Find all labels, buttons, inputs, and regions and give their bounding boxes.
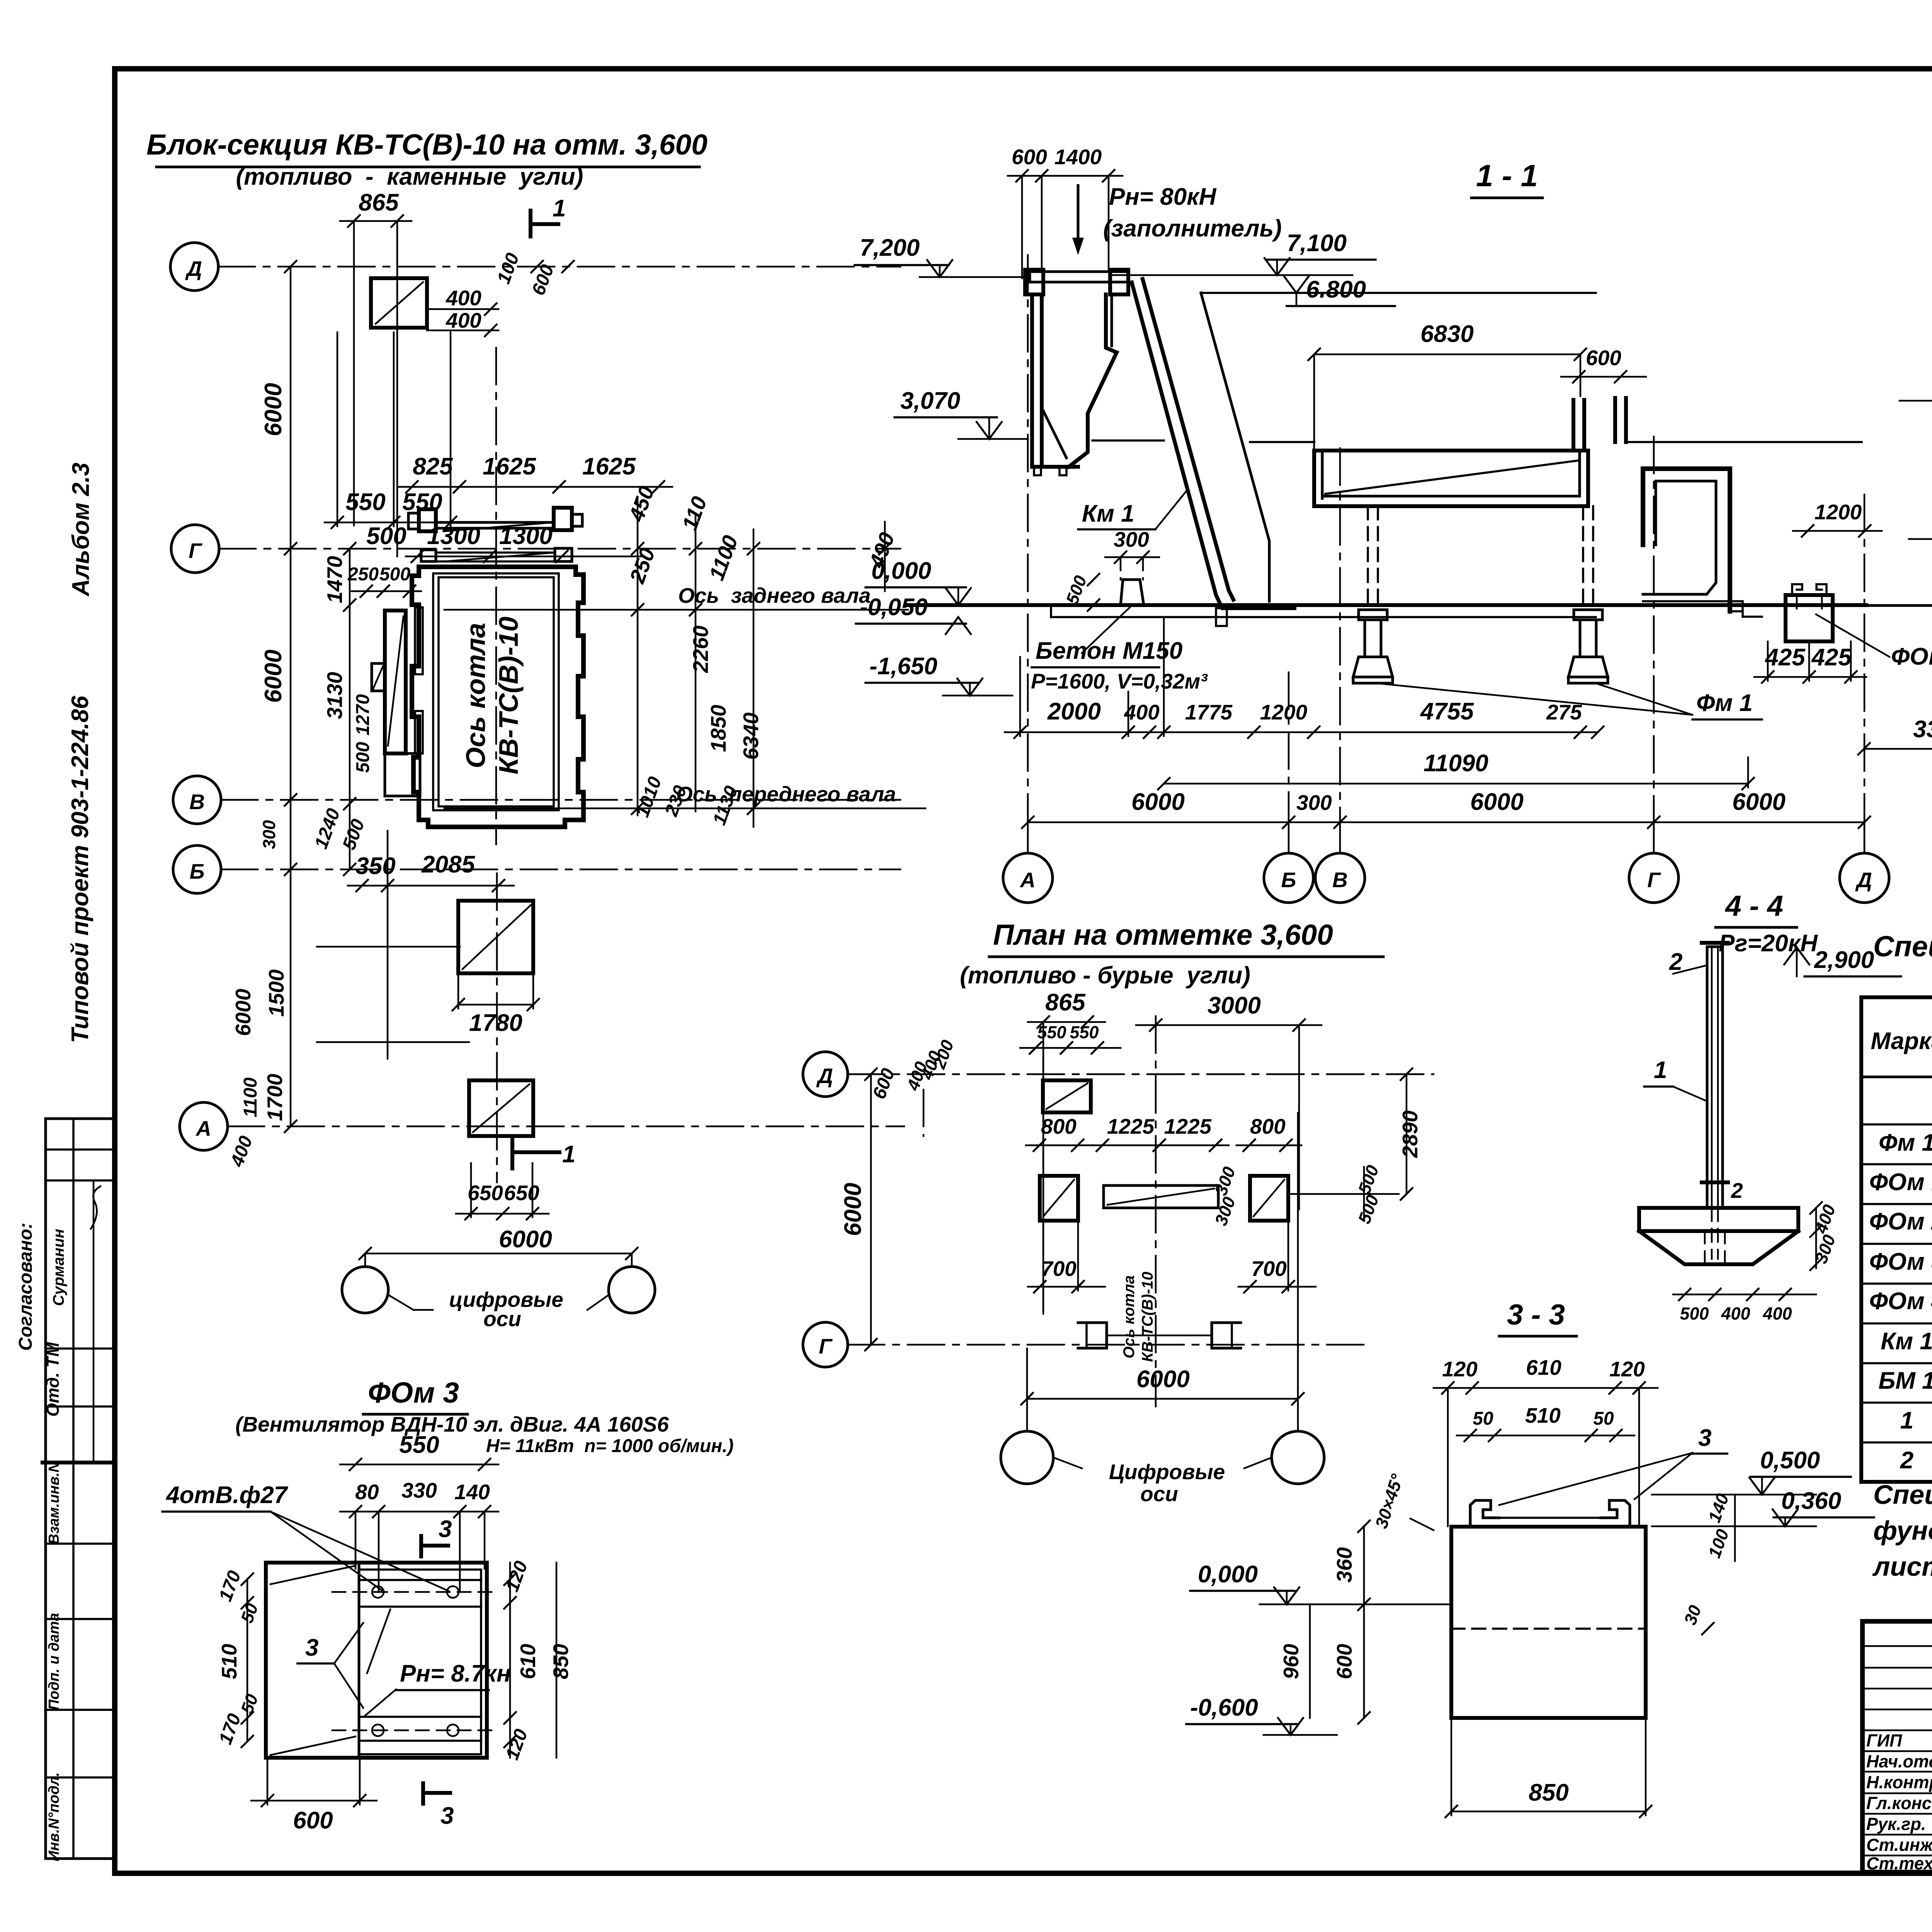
svg-text:2085: 2085: [421, 851, 475, 878]
axis D circle: [170, 243, 218, 291]
dim 1780: [452, 973, 540, 1036]
FOm3 left rotated dims: [215, 1568, 262, 1748]
3-3 level 0,360: [1652, 1488, 1874, 1526]
svg-text:350: 350: [355, 853, 395, 879]
svg-text:800: 800: [1041, 1114, 1077, 1138]
3-3 label 3: [1499, 1425, 1727, 1505]
right rotated dims: [624, 483, 899, 828]
svg-text:(заполнитель): (заполнитель): [1103, 215, 1282, 242]
svg-text:В: В: [1332, 868, 1348, 892]
plan2 center axis line: [1155, 1016, 1157, 1406]
svg-text:6830: 6830: [1420, 321, 1474, 347]
note text below table: [1872, 1480, 1932, 1582]
svg-text:600: 600: [1586, 346, 1621, 370]
svg-text:1225: 1225: [1107, 1114, 1155, 1138]
svg-text:Ст.инж: Ст.инж: [1866, 1835, 1932, 1855]
curb dim 500 rot: [1062, 573, 1100, 612]
svg-text:-0,600: -0,600: [1190, 1694, 1258, 1721]
ash trough: [1314, 451, 1588, 506]
left vertical dim chain: [259, 260, 297, 1133]
dim 865: [340, 189, 412, 556]
spec row FOm1: [1869, 1169, 1932, 1196]
svg-text:550: 550: [1070, 1022, 1099, 1042]
svg-text:Бетон М150: Бетон М150: [1036, 638, 1182, 664]
svg-text:ФОм 3: ФОм 3: [1869, 1248, 1932, 1275]
svg-text:425: 425: [1764, 644, 1806, 671]
svg-text:А: А: [1019, 868, 1036, 892]
dim 600 1400 top: [1008, 145, 1122, 278]
os perednego vala line: [444, 782, 925, 808]
level 3,070: [895, 388, 1028, 439]
svg-text:Рн= 80кН: Рн= 80кН: [1109, 184, 1217, 210]
left dims B-A: [226, 947, 469, 1170]
3-3 dim 120 610 120: [1434, 1355, 1658, 1526]
svg-text:фундаменты ФОм 3, Фом 4 см.: фундаменты ФОм 3, Фом 4 см. на: [1873, 1515, 1932, 1546]
FOm3 dim 550: [340, 1432, 498, 1471]
svg-text:1850: 1850: [706, 704, 730, 752]
axis B line: [221, 869, 900, 871]
svg-text:610: 610: [1526, 1355, 1561, 1379]
boiler front frame double lines: [436, 522, 554, 531]
svg-text:300: 300: [1114, 527, 1149, 551]
svg-text:Взам.инв.N: Взам.инв.N: [46, 1461, 62, 1544]
svg-text:550: 550: [345, 489, 385, 515]
3-3 rotated dims left: [1279, 1520, 1371, 1725]
level 3,600: [1900, 359, 1932, 401]
boiler inner rect 1: [433, 573, 559, 810]
plan1 tsifrovye osi text: [365, 1253, 632, 1331]
dim 250 500: [347, 564, 421, 598]
svg-text:960: 960: [1279, 1644, 1303, 1679]
svg-text:1: 1: [553, 195, 566, 222]
spec table header texts: [1871, 1008, 1932, 1065]
3-3 level 0,000: [1190, 1561, 1451, 1604]
plan2 title: [960, 918, 1383, 989]
level -1,650: [866, 653, 1012, 696]
plan2 bottom circles: [1001, 1431, 1324, 1506]
svg-text:3: 3: [439, 1516, 452, 1543]
svg-text:Типовой проект 903-1-224.86: Типовой проект 903-1-224.86: [67, 696, 94, 1043]
left margin stamp column: [43, 1119, 114, 1859]
floor line right segment: [1626, 441, 1862, 443]
svg-text:2,900: 2,900: [1814, 947, 1874, 973]
plan2 rotated 500 500: [1291, 1163, 1399, 1226]
FOm3 mark 3 bottom: [423, 1783, 454, 1829]
svg-text:А: А: [195, 1116, 211, 1140]
svg-text:6000: 6000: [260, 650, 287, 703]
3-3 level 0,500: [1652, 1447, 1851, 1495]
svg-text:700: 700: [1251, 1257, 1287, 1281]
plan1 bottom circle left: [342, 1267, 388, 1313]
section 1-1 title: [1471, 158, 1543, 198]
svg-text:1200: 1200: [1815, 500, 1862, 524]
spec row Fm1: [1879, 1129, 1932, 1156]
curb dim 300: [1105, 527, 1159, 580]
svg-text:6000: 6000: [840, 1183, 866, 1236]
dim 825 1625 1625: [398, 453, 672, 493]
svg-text:3130: 3130: [323, 672, 347, 719]
plan1 bottom circle right: [609, 1267, 655, 1313]
axis V circle: [173, 776, 221, 824]
level -0,050: [856, 594, 971, 635]
svg-text:Рук.гр.: Рук.гр.: [1866, 1814, 1926, 1834]
os zadnego vala line: [444, 583, 908, 610]
svg-text:1: 1: [1900, 1407, 1913, 1434]
svg-text:Спецификация элементоВ к схем: Спецификация элементоВ к схемам блок- се…: [1873, 930, 1932, 963]
axis A line: [228, 1126, 904, 1128]
boiler inner rect 2: [439, 577, 554, 806]
foundation block top (FOm2): [371, 278, 427, 328]
duct side strips: [415, 607, 423, 753]
svg-text:ГИП: ГИП: [1866, 1731, 1903, 1750]
right dim chains verticals: [631, 498, 891, 827]
svg-text:2260: 2260: [689, 625, 713, 673]
svg-text:Согласовано:: Согласовано:: [15, 1223, 36, 1351]
svg-text:Гл.конст.: Гл.конст.: [1866, 1793, 1932, 1813]
svg-text:4отВ.ф27: 4отВ.ф27: [165, 1482, 288, 1509]
section mark 1 top: [531, 195, 566, 236]
svg-text:650: 650: [504, 1181, 539, 1205]
dim 350 2085: [348, 831, 514, 1059]
FOm3 plan block: [266, 1563, 495, 1758]
svg-text:Г: Г: [189, 539, 202, 563]
plan2 mid-right block: [1250, 1176, 1288, 1221]
svg-text:865: 865: [1045, 989, 1086, 1016]
spec row 2 list: [1900, 1443, 1932, 1482]
svg-text:120: 120: [1442, 1357, 1478, 1381]
svg-text:7,200: 7,200: [860, 235, 920, 261]
svg-text:3,070: 3,070: [900, 388, 960, 414]
floor line 3.600 left segments: [1092, 440, 1314, 442]
dim 6000 bottom plan1: [359, 1226, 638, 1260]
svg-text:1400: 1400: [1054, 145, 1102, 169]
svg-text:7,100: 7,100: [1287, 230, 1347, 257]
section 4-4 title: [1716, 889, 1818, 957]
svg-text:1: 1: [1654, 1057, 1667, 1083]
svg-text:Р=1600, V=0,32м³: Р=1600, V=0,32м³: [1031, 669, 1208, 693]
svg-text:1780: 1780: [469, 1010, 522, 1036]
FOm3 label 3 mid: [298, 1623, 363, 1708]
svg-text:1100: 1100: [240, 1077, 261, 1117]
svg-text:Ст.техн: Ст.техн: [1866, 1854, 1932, 1873]
plan2 dim 3000: [1136, 992, 1321, 1209]
dim 6830: [1308, 321, 1587, 448]
3-3 left channel: [1470, 1500, 1499, 1524]
svg-text:360: 360: [1332, 1547, 1356, 1583]
svg-text:Сурманин: Сурманин: [50, 1229, 67, 1306]
FOm3 dim 80 330 140: [340, 1478, 498, 1592]
plan title underline: [156, 166, 699, 168]
dim 400/400 right of block: [427, 286, 498, 337]
svg-text:3: 3: [440, 1803, 454, 1829]
spec row FOm3: [1869, 1246, 1932, 1285]
svg-text:550: 550: [399, 1432, 439, 1458]
svg-text:Г: Г: [1647, 868, 1661, 892]
trough right wall posts: [1573, 398, 1626, 451]
svg-text:6000: 6000: [1136, 1366, 1190, 1393]
svg-text:Км 1: Км 1: [1881, 1328, 1932, 1355]
svg-text:КВ-ТС(В)-10: КВ-ТС(В)-10: [1139, 1272, 1156, 1362]
svg-text:3 - 3: 3 - 3: [1507, 1298, 1565, 1331]
svg-text:3: 3: [305, 1634, 318, 1661]
svg-text:865: 865: [359, 189, 399, 216]
boiler frame second row bolts: [421, 548, 572, 561]
svg-text:0,500: 0,500: [1760, 1447, 1820, 1474]
3-3 dim 50 510 50: [1457, 1403, 1634, 1442]
boiler frame bolts left: [408, 509, 436, 531]
3-3 right channel: [1601, 1500, 1630, 1524]
level 1,250: [1909, 493, 1932, 539]
svg-text:1625: 1625: [483, 453, 536, 480]
axis A circle: [180, 1102, 228, 1150]
svg-text:Б: Б: [1281, 868, 1296, 892]
FOm3 elevation block: [1786, 584, 1833, 641]
axis V line: [221, 799, 900, 801]
svg-text:0,360: 0,360: [1781, 1488, 1841, 1514]
FOm3 bolt circles: [372, 1586, 459, 1736]
spec table grid: [1861, 997, 1932, 1482]
plan2 small channel clips: [1078, 1323, 1241, 1348]
svg-text:Альбом 2.3: Альбом 2.3: [68, 463, 94, 597]
svg-text:оси: оси: [1140, 1482, 1178, 1506]
svg-text:500: 500: [1680, 1304, 1709, 1323]
section mark 1 bottom: [512, 1138, 575, 1168]
svg-text:6340: 6340: [739, 712, 763, 760]
svg-text:(топливо - каменные угли): (топливо - каменные угли): [236, 163, 583, 190]
svg-text:825: 825: [413, 453, 453, 480]
svg-text:Марка: Марка: [1871, 1028, 1932, 1054]
svg-text:300: 300: [1296, 791, 1332, 815]
plan2 dim 800 top: [1026, 1114, 1094, 1152]
svg-text:-1,650: -1,650: [869, 653, 937, 680]
svg-text:Ось котла: Ось котла: [461, 623, 491, 768]
plan2 dim 550 550: [1020, 1022, 1121, 1054]
boiler plan outline: [412, 567, 583, 827]
lower block 2: [469, 1080, 533, 1136]
Fm1 label: [1383, 684, 1762, 719]
svg-text:600: 600: [1012, 145, 1047, 169]
FOm3 right rotated dims: [502, 1558, 573, 1763]
bunker BM1 top bar: [1025, 270, 1128, 294]
svg-text:1200: 1200: [1260, 700, 1308, 724]
svg-text:400: 400: [446, 286, 481, 310]
svg-text:-0,050: -0,050: [860, 594, 928, 621]
channel Km1 inclined band: [1132, 279, 1294, 626]
3-3 block: [1451, 1518, 1646, 1718]
dim 425 425: [1754, 641, 1866, 684]
svg-text:1270: 1270: [353, 694, 373, 735]
boiler frame bolts right: [554, 508, 582, 530]
svg-text:2000: 2000: [1047, 698, 1101, 725]
duct bottom block: [385, 753, 420, 796]
svg-text:400: 400: [1721, 1304, 1750, 1323]
svg-text:Ось котла: Ось котла: [1121, 1275, 1138, 1358]
svg-text:550: 550: [1037, 1022, 1066, 1042]
svg-text:План на отметке 3,600: План на отметке 3,600: [993, 918, 1333, 951]
svg-text:3000: 3000: [1207, 992, 1261, 1019]
svg-text:11090: 11090: [1423, 750, 1488, 777]
right L-structure: [1643, 469, 1762, 617]
lower block 1: [458, 901, 533, 973]
plan2 os kotla rotated text: [1121, 1272, 1156, 1362]
plan2 dim 6000 bottom: [1020, 1113, 1304, 1430]
FOm3 P=8.7 label: [365, 1609, 511, 1716]
left mid dim chain: [311, 542, 373, 876]
pile column: [1702, 1179, 1743, 1202]
svg-text:6000: 6000: [1732, 789, 1786, 815]
ground line right segments: [1833, 597, 1932, 614]
svg-text:Фм 1: Фм 1: [1879, 1129, 1932, 1156]
svg-text:(топливо - бурые угли): (топливо - бурые угли): [960, 962, 1250, 989]
3-3 dim 850: [1445, 1718, 1652, 1818]
svg-text:4755: 4755: [1420, 698, 1474, 725]
spec row Km1: [1881, 1325, 1932, 1363]
svg-text:140: 140: [454, 1480, 490, 1504]
svg-text:6000: 6000: [1131, 789, 1185, 815]
svg-text:1225: 1225: [1164, 1114, 1212, 1138]
plan2 top block: [1043, 1080, 1091, 1112]
gallery outline diagonal: [1201, 293, 1596, 601]
svg-text:(Вентилятор ВДН-10 эл. дВиг. 4: (Вентилятор ВДН-10 эл. дВиг. 4А 160S6: [235, 1412, 669, 1436]
svg-text:300: 300: [259, 820, 279, 849]
svg-text:850: 850: [549, 1644, 573, 1679]
svg-text:6000: 6000: [231, 988, 255, 1036]
svg-text:610: 610: [516, 1644, 540, 1679]
title block signature texts: [1866, 1731, 1932, 1873]
plan2 dim 865: [1028, 989, 1105, 1314]
dim 100 600 rotated: [493, 250, 575, 298]
section axes circles: [1003, 822, 1053, 903]
svg-text:ФОм 4: ФОм 4: [1869, 1288, 1932, 1315]
axis vertical dash lines: [1028, 255, 1864, 850]
svg-text:120: 120: [1609, 1357, 1645, 1381]
plan2 rotated 2890: [1398, 1068, 1422, 1201]
svg-text:1 - 1: 1 - 1: [1476, 158, 1538, 193]
svg-text:500: 500: [353, 742, 373, 773]
svg-text:6000: 6000: [1470, 789, 1524, 815]
spec row 1 dvutavr: [1900, 1401, 1932, 1442]
svg-text:3: 3: [1698, 1425, 1711, 1451]
3-3 rotated dims right: [1680, 1491, 1735, 1635]
FOm3 mark 3 top: [421, 1516, 452, 1556]
4-4 foundation: [1639, 1208, 1798, 1264]
plan2 dim 700 right: [1238, 1221, 1316, 1293]
svg-text:2: 2: [1731, 1179, 1743, 1202]
plan2 rotated dims 600 400 400 200: [869, 1037, 957, 1136]
svg-text:Нач.отд.: Нач.отд.: [1866, 1752, 1932, 1771]
plan2 axis D: [803, 1052, 1434, 1097]
FOm3 4otv label: [162, 1482, 448, 1591]
ground line 0.000: [908, 603, 1866, 607]
level 6.800: [1283, 275, 1395, 306]
level 7,200: [855, 235, 1023, 277]
bunker BM1 walls: [1032, 294, 1117, 475]
svg-text:600: 600: [293, 1807, 333, 1834]
plan2 dim 1225 1225: [1090, 1114, 1229, 1152]
svg-text:275: 275: [1546, 700, 1582, 724]
svg-text:3300: 3300: [1913, 716, 1932, 743]
svg-text:850: 850: [1529, 1779, 1568, 1806]
axis G line: [219, 548, 900, 550]
svg-text:В: В: [189, 790, 205, 814]
axis G circle: [171, 525, 219, 573]
svg-text:400: 400: [446, 308, 481, 332]
svg-text:650: 650: [468, 1181, 503, 1205]
ground lower line: [1051, 605, 1596, 617]
plan2 axis G: [803, 1322, 1372, 1367]
svg-text:6000: 6000: [260, 383, 287, 436]
4-4 dims right: [1810, 1201, 1839, 1271]
dim 1200: [1793, 500, 1882, 537]
FOm3 title: [363, 1376, 468, 1414]
svg-text:600: 600: [1332, 1644, 1356, 1679]
plan2 channel bar: [1104, 1185, 1218, 1208]
svg-text:1500: 1500: [264, 969, 288, 1017]
svg-text:КВ-ТС(В)-10: КВ-ТС(В)-10: [493, 617, 524, 775]
FOm3 label: [1816, 614, 1932, 670]
dim 500 1300 1300: [366, 523, 641, 563]
lower center dash line: [496, 873, 498, 1182]
svg-text:Ось заднего вала: Ось заднего вала: [678, 583, 871, 607]
level 7,100: [1112, 230, 1376, 275]
plan2 mid-left block: [1040, 1176, 1078, 1221]
svg-text:ФОм 3: ФОм 3: [368, 1376, 459, 1409]
svg-text:Н= 11кВт n= 1000 об/мин.): Н= 11кВт n= 1000 об/мин.): [486, 1436, 734, 1456]
svg-text:500: 500: [366, 523, 406, 549]
svg-text:БМ 1: БМ 1: [1878, 1367, 1932, 1394]
svg-text:листе КЖ8-2: листе КЖ8-2: [1872, 1551, 1932, 1582]
svg-text:Ось переднего вала: Ось переднего вала: [676, 782, 896, 806]
plan2 dim 800 right: [1236, 1114, 1301, 1152]
svg-text:0,000: 0,000: [871, 558, 931, 584]
4-4 column: [1702, 943, 1728, 1208]
plan2 rotated 300 300: [1211, 1164, 1240, 1228]
svg-text:2890: 2890: [1398, 1110, 1422, 1158]
bottom dim row 2000 400: [1005, 618, 1604, 739]
svg-text:510: 510: [217, 1644, 241, 1679]
dim 3300 2300: [1857, 572, 1932, 755]
svg-text:1625: 1625: [582, 453, 636, 480]
beton M150 note: [1031, 605, 1208, 693]
svg-text:700: 700: [1041, 1257, 1077, 1281]
svg-text:Цифровые: Цифровые: [1109, 1460, 1225, 1484]
svg-text:Д: Д: [1855, 868, 1872, 892]
svg-text:Н.контр.: Н.контр.: [1866, 1772, 1932, 1792]
svg-text:250: 250: [347, 564, 379, 585]
FOm3 dim 600: [251, 1758, 377, 1834]
svg-text:510: 510: [1525, 1403, 1561, 1427]
svg-text:6.800: 6.800: [1306, 276, 1366, 303]
4-4 marks 2 2.900: [1669, 947, 1901, 976]
spec row FOm4: [1869, 1287, 1932, 1326]
svg-text:1470: 1470: [323, 556, 347, 603]
dim 550 550: [325, 332, 464, 529]
svg-text:Подп. и дата: Подп. и дата: [46, 1613, 62, 1710]
left duct rect: [385, 611, 406, 753]
svg-text:80: 80: [355, 1480, 379, 1504]
svg-text:Отд. ТМ: Отд. ТМ: [43, 1342, 63, 1417]
axis dim row 6000 300 6000 6000: [1021, 789, 1871, 829]
svg-text:Инв.N°подл.: Инв.N°подл.: [46, 1772, 62, 1862]
svg-text:500: 500: [379, 564, 410, 585]
svg-text:4 - 4: 4 - 4: [1725, 889, 1783, 922]
svg-text:Рг=20кН: Рг=20кН: [1719, 930, 1818, 957]
3-3 title: [1499, 1298, 1577, 1336]
svg-text:1700: 1700: [263, 1073, 287, 1121]
svg-text:Б: Б: [190, 859, 205, 883]
axis B circle: [173, 845, 221, 893]
svg-text:Г: Г: [819, 1334, 833, 1358]
